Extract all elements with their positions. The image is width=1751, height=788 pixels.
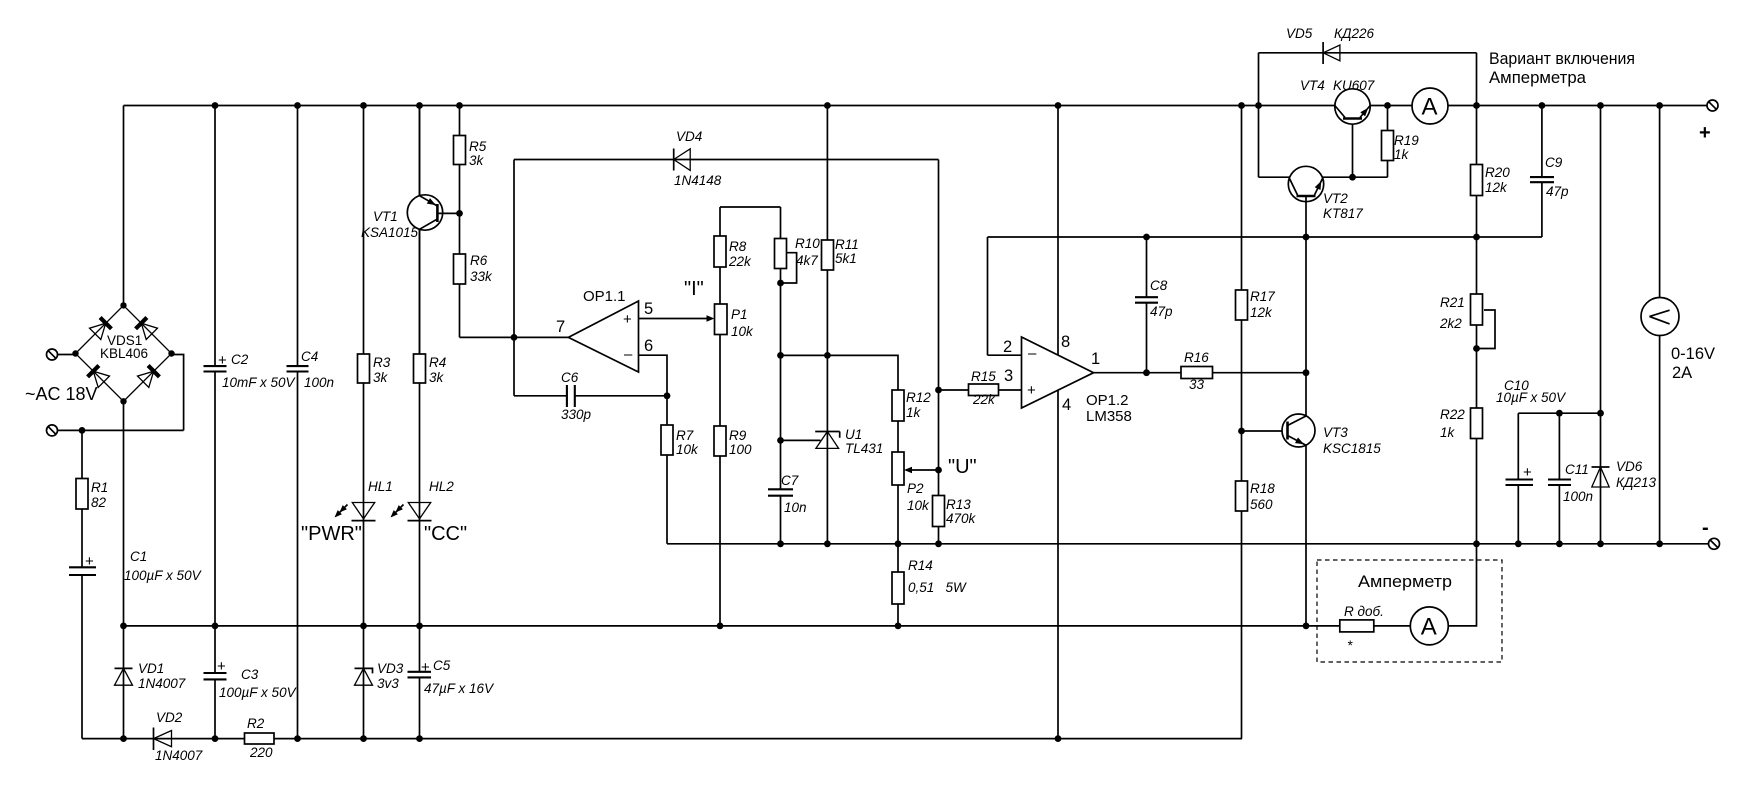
svg-text:+: + bbox=[421, 659, 430, 676]
wire bridge bottom to mid rail bbox=[123, 401, 125, 626]
svg-text:R2: R2 bbox=[247, 716, 265, 731]
svg-text:VT3: VT3 bbox=[1323, 425, 1348, 440]
junction R16 VT3 bbox=[1303, 369, 1310, 376]
svg-text:R5: R5 bbox=[469, 139, 487, 154]
wire R3 HL1 VD3 line bbox=[363, 106, 365, 739]
junction C5 bottom rail bbox=[416, 735, 423, 742]
svg-text:OP1.1: OP1.1 bbox=[583, 288, 626, 305]
voltmeter bbox=[1641, 298, 1715, 383]
svg-text:10mF x 50V: 10mF x 50V bbox=[222, 375, 297, 390]
svg-text:5: 5 bbox=[644, 300, 653, 318]
wire sense rail bbox=[124, 625, 1340, 627]
junction R5 top rail bbox=[456, 102, 463, 109]
capacitor C5 bbox=[408, 658, 496, 696]
svg-text:C9: C9 bbox=[1545, 155, 1563, 170]
resistor R22 bbox=[1440, 407, 1483, 440]
resistor R3 bbox=[358, 354, 391, 385]
svg-text:10µF x 50V: 10µF x 50V bbox=[1496, 390, 1567, 405]
wire VT2 base line bbox=[1259, 176, 1388, 178]
svg-text:КД213: КД213 bbox=[1616, 475, 1656, 490]
svg-text:3k: 3k bbox=[429, 370, 445, 385]
svg-text:100: 100 bbox=[729, 442, 752, 457]
svg-text:R7: R7 bbox=[676, 428, 694, 443]
junction VD6 top rail bbox=[1597, 102, 1604, 109]
wire top +raw rail bbox=[124, 105, 1708, 107]
junction VD1 bottom rail bbox=[120, 735, 127, 742]
resistor R18 bbox=[1236, 481, 1276, 512]
svg-text:R13: R13 bbox=[946, 497, 971, 512]
svg-text:5k1: 5k1 bbox=[835, 251, 857, 266]
junction VD3 bottom rail bbox=[360, 735, 367, 742]
resistor R4 bbox=[414, 354, 447, 385]
svg-text:VT4: VT4 bbox=[1300, 78, 1325, 93]
wire R10 wiper tap bbox=[781, 253, 797, 283]
svg-text:22k: 22k bbox=[728, 254, 752, 269]
svg-text:100µF x 50V: 100µF x 50V bbox=[124, 568, 203, 583]
ammeter A bbox=[1412, 88, 1448, 124]
junction VD6 neg rail bbox=[1597, 540, 1604, 547]
svg-text:OP1.2: OP1.2 bbox=[1086, 392, 1129, 409]
alt ammeter dashed box bbox=[1317, 560, 1502, 662]
potentiometer P2 bbox=[892, 452, 930, 513]
svg-text:–: – bbox=[1028, 345, 1037, 362]
junction R9 sense rail bbox=[717, 623, 724, 630]
wire bridge top to rail bbox=[123, 106, 125, 306]
svg-text:12k: 12k bbox=[1250, 305, 1273, 320]
svg-text:R3: R3 bbox=[373, 355, 391, 370]
junction R10 wiper bbox=[777, 280, 784, 287]
transistor VT3 KSC1815 bbox=[1282, 414, 1381, 456]
svg-text:VD6: VD6 bbox=[1616, 459, 1643, 474]
wire C3 line bbox=[214, 626, 216, 739]
wire output node riser bbox=[513, 160, 515, 396]
wire OP1.2 output R16 bbox=[1094, 372, 1306, 374]
svg-text:R9: R9 bbox=[729, 428, 747, 443]
svg-text:1k: 1k bbox=[1394, 147, 1410, 162]
svg-text:R22: R22 bbox=[1440, 407, 1465, 422]
svg-text:100n: 100n bbox=[304, 375, 334, 390]
svg-text:VD5: VD5 bbox=[1286, 26, 1313, 41]
svg-text:470k: 470k bbox=[946, 511, 977, 526]
svg-text:VT2: VT2 bbox=[1323, 191, 1348, 206]
svg-text:0-16V: 0-16V bbox=[1671, 345, 1715, 363]
svg-text:~AC 18V: ~AC 18V bbox=[25, 384, 98, 404]
junction R20 feedback bbox=[1473, 234, 1480, 241]
svg-text:LM358: LM358 bbox=[1086, 408, 1132, 425]
junction C4 top rail bbox=[294, 102, 301, 109]
wire C9 line bbox=[1541, 106, 1543, 238]
svg-text:KT817: KT817 bbox=[1323, 206, 1363, 221]
junction C9 top rail bbox=[1539, 102, 1546, 109]
junction C6 R7 bbox=[664, 392, 671, 399]
svg-text:R16: R16 bbox=[1184, 350, 1209, 365]
wire bottom return rail bbox=[82, 738, 1242, 740]
capacitor C4 bbox=[287, 349, 335, 390]
svg-text:C2: C2 bbox=[231, 352, 249, 367]
svg-text:+: + bbox=[1027, 382, 1036, 399]
wire VD4 right riser R13 line bbox=[938, 160, 940, 544]
svg-text:2k2: 2k2 bbox=[1439, 316, 1462, 331]
bridge rectifier VDS1 KBL406 bbox=[72, 302, 174, 404]
junction R17 top rail bbox=[1238, 102, 1245, 109]
svg-text:100µF x 50V: 100µF x 50V bbox=[219, 685, 298, 700]
svg-text:47µF x 16V: 47µF x 16V bbox=[424, 681, 495, 696]
svg-text:R21: R21 bbox=[1440, 295, 1465, 310]
svg-text:330p: 330p bbox=[561, 407, 592, 422]
svg-text:R10: R10 bbox=[795, 236, 820, 251]
wire VD4 feedback line bbox=[514, 159, 939, 161]
svg-text:1: 1 bbox=[1091, 350, 1100, 368]
wire R7 branch bbox=[666, 396, 668, 544]
svg-text:"I": "I" bbox=[684, 278, 704, 300]
junction P2 wiper U node bbox=[935, 467, 942, 474]
svg-text:560: 560 bbox=[1250, 497, 1273, 512]
capacitor C8 bbox=[1135, 278, 1173, 319]
wire R14 branch bbox=[897, 544, 899, 626]
svg-text:VD2: VD2 bbox=[156, 710, 183, 725]
wire C2 line bbox=[214, 106, 216, 626]
svg-text:3k: 3k bbox=[373, 370, 389, 385]
resistor R17 bbox=[1236, 289, 1276, 320]
capacitor C2 bbox=[204, 352, 297, 390]
resistor R7 bbox=[661, 425, 699, 457]
transistor VT2 KT817 bbox=[1288, 166, 1363, 221]
junction C11 top link bbox=[1556, 410, 1563, 417]
wire U net to R12 bbox=[781, 355, 899, 390]
svg-text:–: – bbox=[624, 346, 633, 363]
junction R21 wiper bbox=[1473, 345, 1480, 352]
junction C5 sense rail bbox=[416, 623, 423, 630]
svg-text:6: 6 bbox=[644, 337, 653, 355]
junction VT2 base feedback bbox=[1303, 234, 1310, 241]
svg-text:47p: 47p bbox=[1546, 184, 1569, 199]
junction R19 top rail bbox=[1384, 102, 1391, 109]
wire VT1 R4 HL2 C5 line bbox=[419, 106, 421, 739]
resistor R12 bbox=[892, 390, 931, 421]
svg-text:R1: R1 bbox=[91, 480, 108, 495]
svg-text:R14: R14 bbox=[908, 558, 933, 573]
svg-text:VD1: VD1 bbox=[138, 661, 164, 676]
wire R8 P1 R9 line bbox=[719, 207, 721, 626]
svg-text:*: * bbox=[1347, 638, 1353, 653]
svg-text:33k: 33k bbox=[470, 269, 493, 284]
wire AC input line 1 bbox=[58, 354, 76, 356]
capacitor C9 bbox=[1530, 155, 1569, 199]
wire R20 R21 R22 line bbox=[1476, 106, 1478, 544]
svg-text:R8: R8 bbox=[729, 239, 747, 254]
svg-text:C11: C11 bbox=[1565, 462, 1589, 477]
svg-text:KSC1815: KSC1815 bbox=[1323, 441, 1381, 456]
svg-text:10k: 10k bbox=[907, 498, 930, 513]
resistor R20 bbox=[1471, 165, 1511, 196]
svg-text:P2: P2 bbox=[907, 481, 924, 496]
wire R10 C7 line bbox=[780, 207, 782, 544]
svg-text:2A: 2A bbox=[1672, 364, 1692, 382]
resistor R14 bbox=[892, 558, 967, 604]
svg-text:+: + bbox=[85, 553, 94, 570]
svg-text:+: + bbox=[1523, 464, 1532, 481]
svg-text:1N4007: 1N4007 bbox=[138, 676, 186, 691]
svg-text:R20: R20 bbox=[1485, 165, 1510, 180]
svg-text:C4: C4 bbox=[301, 349, 318, 364]
wire OP1.2 pin8 bbox=[1057, 106, 1059, 356]
terminal AC input 1 bbox=[47, 349, 58, 360]
svg-text:Амперметра: Амперметра bbox=[1489, 68, 1587, 87]
LED HL2 bbox=[391, 479, 455, 521]
svg-text:10k: 10k bbox=[731, 324, 754, 339]
wire R11 U1 line bbox=[826, 106, 828, 544]
alt ammeter A bbox=[1410, 607, 1448, 645]
op-amp OP1.1 bbox=[556, 288, 653, 372]
junction pin4 bottom rail bbox=[1055, 735, 1062, 742]
wire negative output rail bbox=[667, 543, 1709, 545]
junction VD3 sense rail bbox=[360, 623, 367, 630]
wire R1 C1 branch bbox=[81, 430, 83, 738]
junction voltmeter top rail bbox=[1656, 102, 1663, 109]
transistor VT4 KU607 bbox=[1300, 78, 1375, 124]
junction VD6 top link bbox=[1597, 410, 1604, 417]
junction VT1 base bbox=[456, 210, 463, 217]
svg-text:KSA1015: KSA1015 bbox=[361, 225, 419, 240]
resistor R5 bbox=[454, 136, 487, 169]
svg-text:HL1: HL1 bbox=[368, 479, 393, 494]
junction voltmeter neg rail bbox=[1656, 540, 1663, 547]
wire C10 branch bbox=[1517, 413, 1519, 544]
shunt regulator U1 TL431 bbox=[815, 427, 883, 456]
svg-text:R доб.: R доб. bbox=[1344, 604, 1384, 619]
svg-text:"U": "U" bbox=[948, 456, 977, 478]
zener VD3 bbox=[355, 661, 404, 691]
junction R10 U net bbox=[777, 352, 784, 359]
svg-text:220: 220 bbox=[249, 745, 273, 760]
svg-text:R12: R12 bbox=[906, 390, 931, 405]
svg-text:C3: C3 bbox=[241, 667, 259, 682]
resistor R15 bbox=[969, 369, 999, 407]
wire C6 line bbox=[514, 395, 667, 397]
svg-text:C1: C1 bbox=[130, 549, 147, 564]
svg-text:C7: C7 bbox=[781, 473, 799, 488]
svg-text:1N4148: 1N4148 bbox=[674, 173, 722, 188]
resistor R8 bbox=[714, 236, 752, 269]
capacitor C7 bbox=[768, 473, 807, 515]
junction VT4 base bbox=[1349, 174, 1356, 181]
svg-text:C5: C5 bbox=[433, 658, 451, 673]
svg-text:82: 82 bbox=[91, 495, 107, 510]
capacitor C1 bbox=[69, 549, 203, 583]
junction R22 neg rail bbox=[1473, 540, 1480, 547]
resistor R16 bbox=[1181, 350, 1213, 392]
wire VT2 collector VT3 line bbox=[1305, 196, 1307, 626]
capacitor C3 bbox=[204, 658, 298, 700]
diode VD1 bbox=[115, 661, 186, 691]
wire C8 branch bbox=[1146, 237, 1148, 373]
diode VD2 bbox=[154, 710, 203, 763]
wire OP1.2 pin2 feedback bbox=[988, 237, 1542, 355]
svg-text:7: 7 bbox=[556, 318, 565, 336]
junction C8 output bbox=[1143, 369, 1150, 376]
svg-text:"CC": "CC" bbox=[424, 523, 467, 545]
junction R14 sense rail bbox=[895, 623, 902, 630]
diode VD6 bbox=[1592, 459, 1657, 490]
junction U1 ref bbox=[777, 437, 784, 444]
junction R1 branch bbox=[79, 427, 86, 434]
svg-text:KBL406: KBL406 bbox=[100, 346, 148, 361]
wire R21 wiper tap bbox=[1477, 310, 1496, 349]
wire R6 bottom to OP1.1 output node bbox=[460, 336, 569, 338]
resistor R19 bbox=[1382, 131, 1420, 163]
terminal output minus bbox=[1702, 517, 1720, 549]
svg-text:Вариант включения: Вариант включения bbox=[1489, 49, 1635, 68]
junction C10 neg rail bbox=[1515, 540, 1522, 547]
diode VD4 bbox=[674, 129, 722, 188]
svg-text:33: 33 bbox=[1189, 377, 1205, 392]
junction R15 VD4 bbox=[935, 387, 942, 394]
svg-text:1k: 1k bbox=[1440, 425, 1456, 440]
resistor R dob bbox=[1340, 604, 1384, 653]
junction C3 bottom rail bbox=[212, 735, 219, 742]
wire R12 P2 line bbox=[897, 390, 899, 544]
junction OP1.1 output bbox=[511, 334, 518, 341]
svg-text:1N4007: 1N4007 bbox=[155, 748, 203, 763]
junction R13 neg rail bbox=[935, 540, 942, 547]
svg-text:+: + bbox=[1699, 122, 1711, 144]
junction VT3 emitter sense rail bbox=[1303, 623, 1310, 630]
svg-text:R17: R17 bbox=[1250, 289, 1275, 304]
svg-text:+: + bbox=[218, 352, 227, 369]
wire R5 R6 line bbox=[459, 106, 461, 338]
junction C4 bottom rail bbox=[294, 735, 301, 742]
capacitor C6 bbox=[561, 370, 592, 422]
junction C2 top rail bbox=[212, 102, 219, 109]
junction VD5 right top rail bbox=[1473, 102, 1480, 109]
junction pin8 top rail bbox=[1055, 102, 1062, 109]
transistor VT1 KSA1015 bbox=[361, 106, 460, 355]
svg-text:R4: R4 bbox=[429, 355, 446, 370]
svg-text:2: 2 bbox=[1003, 338, 1012, 356]
terminal output plus bbox=[1699, 100, 1718, 144]
junction C3 sense rail bbox=[212, 623, 219, 630]
wire VD1 branch bbox=[123, 626, 125, 739]
wire alt ammeter branch bbox=[1374, 544, 1477, 626]
capacitor C10 bbox=[1496, 378, 1567, 485]
svg-text:10k: 10k bbox=[676, 442, 699, 457]
wire VD5 branch bbox=[1259, 53, 1477, 177]
junction VD5 left top rail bbox=[1255, 102, 1262, 109]
wire C4 line bbox=[297, 106, 299, 739]
junction R3 top rail bbox=[360, 102, 367, 109]
wire C11 branch bbox=[1558, 413, 1560, 544]
junction C11 neg rail bbox=[1556, 540, 1563, 547]
svg-text:R19: R19 bbox=[1394, 133, 1419, 148]
svg-text:C8: C8 bbox=[1150, 278, 1168, 293]
svg-text:P1: P1 bbox=[731, 307, 748, 322]
resistor R11 bbox=[822, 237, 859, 270]
svg-text:КД226: КД226 bbox=[1334, 26, 1374, 41]
wire R15 to pin3 bbox=[939, 389, 1022, 391]
svg-text:8: 8 bbox=[1061, 333, 1070, 351]
svg-text:Амперметр: Амперметр bbox=[1358, 572, 1452, 591]
svg-text:1k: 1k bbox=[906, 405, 922, 420]
wire VD6 line bbox=[1600, 106, 1602, 544]
resistor R1 bbox=[76, 479, 108, 511]
svg-text:U1: U1 bbox=[845, 427, 862, 442]
wire OP1.2 pin4 bbox=[1057, 391, 1059, 739]
wire R17 R18 line bbox=[1241, 106, 1243, 739]
resistor R2 bbox=[245, 716, 275, 760]
svg-text:R11: R11 bbox=[835, 237, 859, 252]
svg-text:HL2: HL2 bbox=[429, 479, 454, 494]
svg-text:VT1: VT1 bbox=[373, 209, 398, 224]
wire C10 C11 top link bbox=[1518, 412, 1600, 414]
wire voltmeter branch bbox=[1659, 106, 1661, 544]
junction VT3 base R17 R18 bbox=[1238, 428, 1245, 435]
svg-text:VD4: VD4 bbox=[676, 129, 702, 144]
svg-text:+: + bbox=[217, 658, 226, 675]
svg-text:4: 4 bbox=[1062, 396, 1071, 414]
svg-text:A: A bbox=[1422, 94, 1438, 121]
svg-text:KU607: KU607 bbox=[1333, 78, 1375, 93]
resistor R9 bbox=[714, 426, 752, 457]
junction R11 top rail bbox=[824, 102, 831, 109]
svg-text:10n: 10n bbox=[784, 500, 807, 515]
wire AC input line 2 to bridge right node bbox=[58, 355, 184, 431]
wire OP1.1 pin5 to P1 bbox=[639, 318, 712, 320]
junction C7 neg rail bbox=[777, 540, 784, 547]
resistor R6 bbox=[454, 253, 494, 284]
svg-text:3k: 3k bbox=[469, 153, 485, 168]
svg-text:47p: 47p bbox=[1150, 304, 1173, 319]
svg-text:VD3: VD3 bbox=[377, 661, 404, 676]
resistor R13 bbox=[933, 496, 977, 527]
wire R19 branch bbox=[1387, 106, 1389, 178]
junction VT1 top rail bbox=[416, 102, 423, 109]
svg-text:R18: R18 bbox=[1250, 481, 1275, 496]
junction U1 neg rail bbox=[824, 540, 831, 547]
svg-text:R15: R15 bbox=[971, 369, 996, 384]
junction C8 feedback bbox=[1143, 234, 1150, 241]
svg-text:3v3: 3v3 bbox=[377, 676, 399, 691]
svg-text:C6: C6 bbox=[561, 370, 579, 385]
wire VT3 base bbox=[1242, 430, 1288, 432]
junction R11 U net bbox=[824, 352, 831, 359]
svg-text:22k: 22k bbox=[972, 392, 996, 407]
svg-text:12k: 12k bbox=[1485, 180, 1508, 195]
junction P2 R14 neg rail bbox=[895, 540, 902, 547]
svg-text:3: 3 bbox=[1004, 367, 1013, 385]
wire P2 wiper to U node bbox=[906, 469, 939, 471]
svg-text:0,51 5W: 0,51 5W bbox=[908, 580, 967, 595]
svg-text:-: - bbox=[1702, 517, 1709, 539]
svg-text:100n: 100n bbox=[1563, 489, 1593, 504]
capacitor C11 bbox=[1548, 462, 1593, 504]
svg-text:+: + bbox=[623, 311, 632, 328]
svg-text:A: A bbox=[1421, 613, 1437, 640]
potentiometer P1 bbox=[707, 304, 755, 339]
LED HL1 bbox=[335, 479, 393, 521]
trimmer R10 bbox=[775, 236, 821, 269]
junction VD1 sense rail bbox=[120, 623, 127, 630]
svg-text:4k7: 4k7 bbox=[796, 253, 818, 268]
potentiometer R21 bbox=[1439, 294, 1483, 331]
diode VD5 bbox=[1286, 26, 1374, 64]
wire U1 ref bbox=[781, 439, 821, 441]
svg-text:TL431: TL431 bbox=[845, 441, 883, 456]
wire R8 R10 top link bbox=[720, 206, 781, 208]
wire OP1.1 pin6 bbox=[639, 355, 668, 396]
op-amp OP1.2 LM358 bbox=[1003, 333, 1132, 425]
wire VT4 base bbox=[1352, 119, 1354, 178]
svg-text:"PWR": "PWR" bbox=[301, 523, 362, 545]
